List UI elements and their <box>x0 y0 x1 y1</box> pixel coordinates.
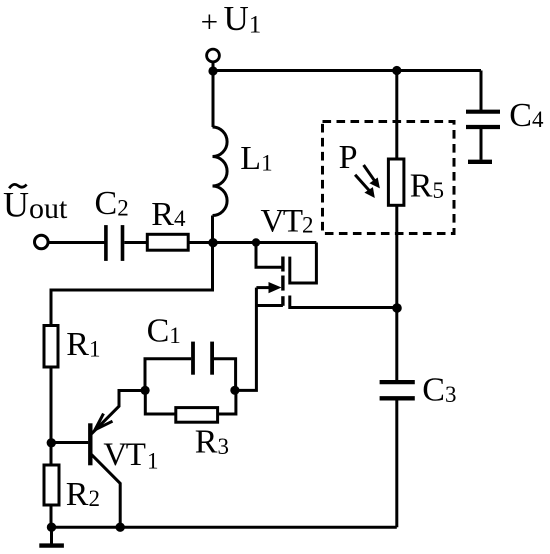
svg-text:1: 1 <box>147 449 159 474</box>
svg-text:P: P <box>339 139 358 176</box>
substrate link to source <box>256 304 283 307</box>
chassis bar <box>468 160 492 164</box>
label C1 <box>147 313 181 350</box>
wire C1 branch right <box>214 359 236 391</box>
wire bottom bus <box>52 526 397 529</box>
emitter lead <box>92 391 146 434</box>
svg-text:VT: VT <box>103 437 145 473</box>
node junction top <box>208 66 217 75</box>
channel dash top <box>281 257 284 272</box>
label R4 <box>151 196 186 233</box>
resistor R2 <box>44 465 59 505</box>
capacitor C2 <box>106 225 123 261</box>
source lead <box>290 296 397 308</box>
wire R3 branch right <box>218 390 236 414</box>
wire <box>395 400 398 527</box>
label +U1 <box>201 0 262 39</box>
ground <box>39 527 64 545</box>
transistor VT1 <box>51 391 145 528</box>
wire R3 branch left <box>145 390 176 414</box>
label Uout <box>3 184 68 225</box>
base wire <box>51 441 88 444</box>
svg-text:2: 2 <box>302 213 314 238</box>
light arrow 1 <box>364 165 380 188</box>
node junction R5 top <box>392 66 401 75</box>
gate lead <box>256 243 283 268</box>
capacitor C1 <box>193 342 212 375</box>
drain lead <box>290 243 317 284</box>
wire <box>51 243 213 326</box>
svg-text:VT: VT <box>261 203 303 239</box>
wire <box>50 367 53 465</box>
node A (C1,R3 left) <box>141 386 150 395</box>
transistor VT2 <box>256 243 397 308</box>
wire <box>48 241 104 244</box>
label R5 <box>410 168 444 205</box>
node junction main <box>208 238 217 247</box>
label P <box>339 139 358 176</box>
resistor R5 <box>388 159 404 205</box>
wire <box>124 241 147 244</box>
wire <box>211 216 214 243</box>
svg-text:out: out <box>29 192 68 225</box>
svg-text:+: + <box>201 4 218 39</box>
node junction base <box>47 438 56 447</box>
wire C1 branch left <box>145 359 191 391</box>
wire <box>395 308 398 380</box>
terminal +U1 <box>207 49 220 62</box>
channel dash bottom <box>281 296 284 306</box>
wire <box>480 129 483 160</box>
wire node B to VT2 substrate <box>235 288 257 391</box>
collector lead <box>92 455 121 527</box>
emitter arrowhead <box>95 414 113 430</box>
node B (C1,R3 right) <box>230 386 239 395</box>
label C4 <box>509 97 544 134</box>
light arrow 2 <box>355 175 375 198</box>
label C3 <box>422 372 456 409</box>
channel dash middle <box>281 276 284 291</box>
label R3 <box>195 423 229 460</box>
optocoupler dashed box P <box>323 122 455 234</box>
capacitor C3 <box>380 382 415 398</box>
wire <box>395 205 398 308</box>
wire <box>188 241 213 244</box>
wire <box>212 62 215 72</box>
wire <box>50 505 53 527</box>
wire <box>395 71 398 160</box>
wire <box>213 241 316 244</box>
node junction gate <box>252 238 260 246</box>
label R1 <box>66 326 100 363</box>
label VT1 <box>103 437 158 474</box>
label R2 <box>66 476 100 513</box>
label L1 <box>240 140 272 177</box>
svg-text:U: U <box>3 185 29 225</box>
inductor L1 <box>213 127 228 216</box>
label VT2 <box>261 203 314 239</box>
wire <box>480 71 483 111</box>
substrate arrow line <box>256 286 272 289</box>
substrate arrowhead <box>269 282 282 293</box>
capacitor C4 <box>466 112 500 127</box>
resistor R1 <box>44 326 58 368</box>
node junction emitter-bus <box>116 523 125 532</box>
resistor R3 <box>176 408 218 423</box>
wire <box>212 71 215 127</box>
resistor R4 <box>147 234 188 250</box>
node junction source <box>392 303 402 313</box>
node junction bottom-left <box>47 523 56 532</box>
base bar <box>88 423 92 465</box>
wire <box>213 69 481 72</box>
terminal Uout <box>35 235 49 249</box>
label C2 <box>95 185 129 222</box>
